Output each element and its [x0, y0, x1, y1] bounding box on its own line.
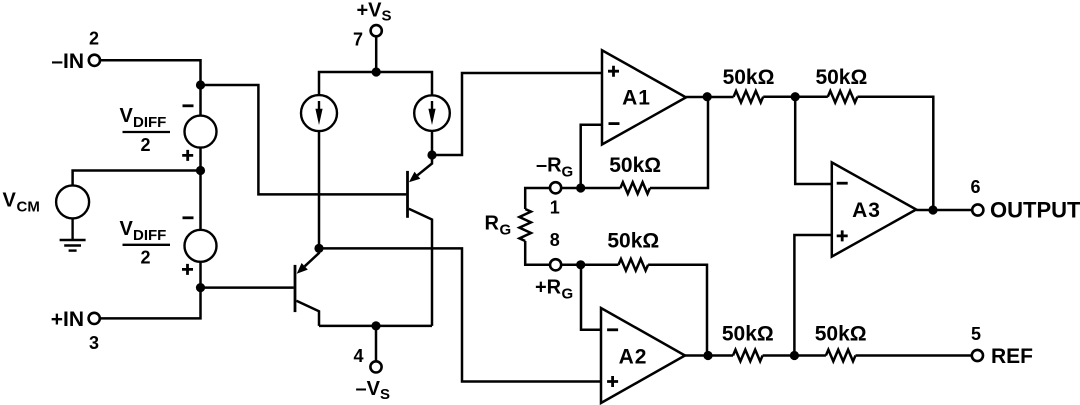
svg-text:4: 4: [353, 346, 363, 366]
svg-text:A2: A2: [619, 346, 648, 369]
svg-text:–IN: –IN: [51, 50, 84, 73]
svg-text:50kΩ: 50kΩ: [722, 323, 774, 346]
svg-text:R: R: [485, 213, 500, 235]
svg-text:V: V: [3, 190, 17, 212]
svg-text:G: G: [500, 222, 512, 239]
svg-text:8: 8: [550, 230, 560, 250]
svg-text:2: 2: [89, 29, 99, 49]
svg-text:50kΩ: 50kΩ: [723, 66, 775, 89]
svg-text:DIFF: DIFF: [133, 114, 166, 131]
svg-text:6: 6: [970, 177, 980, 197]
svg-text:CM: CM: [17, 199, 40, 216]
svg-text:–R: –R: [536, 155, 562, 177]
svg-text:G: G: [562, 164, 574, 181]
svg-text:50kΩ: 50kΩ: [815, 66, 867, 89]
svg-text:V: V: [120, 105, 134, 127]
svg-text:50kΩ: 50kΩ: [815, 323, 867, 346]
svg-text:+V: +V: [357, 0, 383, 22]
svg-text:7: 7: [353, 30, 363, 50]
svg-text:A3: A3: [852, 199, 881, 222]
svg-text:OUTPUT: OUTPUT: [990, 198, 1080, 223]
svg-text:2: 2: [140, 135, 150, 155]
svg-text:3: 3: [89, 333, 99, 353]
svg-text:+R: +R: [535, 277, 562, 299]
svg-text:S: S: [380, 386, 390, 403]
svg-text:REF: REF: [991, 345, 1033, 368]
svg-text:+IN: +IN: [51, 308, 84, 331]
svg-text:1: 1: [550, 198, 560, 218]
svg-text:A1: A1: [622, 87, 651, 110]
svg-text:G: G: [562, 286, 574, 303]
svg-text:S: S: [382, 8, 392, 25]
svg-text:V: V: [120, 218, 134, 240]
svg-text:2: 2: [140, 248, 150, 268]
svg-text:50kΩ: 50kΩ: [609, 154, 661, 177]
svg-text:5: 5: [971, 324, 981, 344]
svg-text:50kΩ: 50kΩ: [607, 230, 659, 253]
svg-text:DIFF: DIFF: [133, 227, 166, 244]
svg-text:–V: –V: [356, 378, 381, 400]
